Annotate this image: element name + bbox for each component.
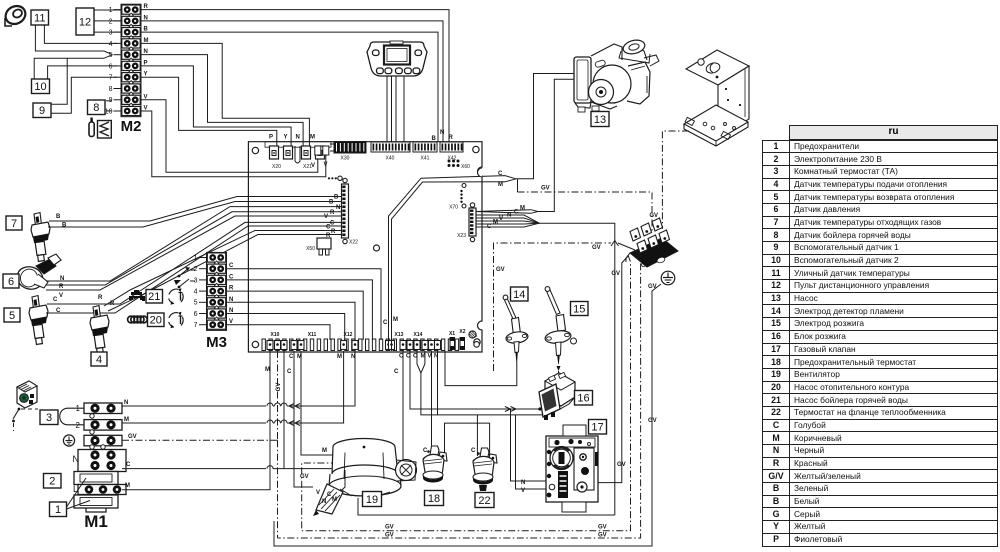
wire M2-1 R to X42 [141,10,449,142]
box 18 [425,491,444,506]
svg-text:21: 21 [148,291,160,303]
wire earth to bottom bus [274,284,661,546]
svg-text:X2: X2 [459,329,465,335]
svg-text:2: 2 [49,476,55,488]
svg-text:N: N [73,454,80,464]
wire pump feed 1 [516,74,575,179]
box 16 [575,391,593,406]
svg-text:4: 4 [109,41,113,48]
wire GV electrodes enclosure [494,243,612,371]
svg-text:R: R [330,210,335,216]
wire GV bracket to earth block [662,131,689,229]
svg-text:1: 1 [55,504,61,516]
wire sensor6 N to X22 [46,207,342,281]
svg-text:V: V [521,488,525,494]
svg-text:R: R [331,229,336,235]
svg-text:N: N [336,205,340,211]
wire M2-6 P to X20 [141,66,291,146]
wire M pump pair [392,179,517,351]
wire sensor4 R2 to X22 [108,235,342,312]
pump rotation symbol upper [169,288,184,304]
svg-text:V: V [316,490,320,496]
sensor 5 return temperature [29,296,48,345]
svg-text:22: 22 [478,495,490,507]
box 10 (aux sensor 2 ref) [32,79,50,94]
wire M2-4 M to X21 [141,43,309,146]
svg-text:M: M [124,417,129,423]
room thermostat connector icon [17,381,37,408]
svg-text:X50: X50 [306,246,315,252]
svg-text:GV: GV [598,525,607,531]
dash box8 to M2-10 [106,110,112,112]
sensor 6 pressure transducer [14,254,61,292]
wire box10 to M2-6 [48,66,117,79]
wire X10 GV dash-dot down [277,351,279,440]
wire M1-L M to X10 [122,351,270,490]
wire box11 to M2-5 arrow upper [35,25,112,55]
svg-text:C: C [399,354,404,360]
wire M2-10 V to PCB [141,111,326,177]
box 9 (aux sensor 1 ref) [33,103,51,118]
sensor 7 flue gas temperature [31,213,50,262]
svg-text:N: N [521,480,525,486]
wire X10 C down [283,351,285,469]
box 7 [6,216,22,230]
svg-text:C: C [53,297,58,303]
svg-text:5: 5 [194,300,198,307]
connector X20 [270,146,293,170]
svg-text:5: 5 [9,310,15,322]
svg-text:C: C [330,221,335,227]
wire box9 branch to M2-5 [51,58,67,104]
wire electrode15 to ignition block [558,371,560,376]
svg-text:2: 2 [76,421,81,430]
svg-text:V: V [59,293,63,299]
svg-text:GV: GV [128,434,137,440]
box 3 [40,410,58,425]
wire M2-2 N to X42 [141,21,443,142]
svg-text:X1: X1 [449,331,455,337]
wire sensor7 B to X22 [49,197,342,222]
box 1 [50,502,67,517]
wire valve right loop [598,256,628,483]
wire M3-5 to X12 [227,302,356,340]
wire M3-6 to X12 [227,314,345,341]
wire sensor6 R to X22 [46,212,342,285]
svg-text:V: V [428,354,432,360]
wire M3-7 to X12 [227,325,331,340]
connector X30 [330,142,366,162]
svg-text:7: 7 [109,75,113,82]
svg-text:GV: GV [496,267,505,273]
wire sensor6 V to X22 [46,216,342,290]
svg-text:M: M [310,135,315,141]
svg-text:X13: X13 [395,332,404,338]
ground screw X2 [459,329,479,347]
wire X13 N [437,351,439,415]
svg-text:X22: X22 [349,240,358,246]
M1 1-2 jumper loop [60,408,84,425]
svg-text:GV: GV [385,525,394,531]
V pins below edge [315,146,321,155]
electrode 15 ignition [544,287,576,371]
svg-text:8: 8 [109,86,113,93]
fan connector wedge [313,484,343,516]
svg-text:B: B [334,195,339,201]
wire M2-9 V to PCB [141,100,318,173]
svg-text:N: N [296,135,300,141]
wire fan feeders [341,470,345,491]
svg-text:10: 10 [105,108,113,115]
svg-text:X70: X70 [449,205,458,211]
M3 row3 switch symbol [174,279,195,288]
svg-text:X60: X60 [461,164,470,170]
svg-text:V: V [324,162,328,168]
connector X70 [449,184,466,211]
svg-text:C: C [471,448,476,454]
M3 row2 switch symbol [178,267,195,277]
wire GV from pump line to earth block [517,179,519,192]
electrode 14 flame detection [503,295,529,361]
wire M1-N C to X13 [122,468,266,470]
wire X13 C2+M merge [417,351,546,415]
wire M3-4 to X12 [227,291,364,340]
wire sensor5 C2 to X22 [46,226,342,313]
svg-text:M: M [265,367,270,373]
connector X22 [342,178,359,245]
svg-text:2: 2 [109,18,113,25]
svg-text:C: C [394,369,399,375]
svg-text:X14: X14 [414,332,423,338]
gas valve [546,425,598,512]
svg-text:19: 19 [366,494,378,506]
svg-text:X30: X30 [341,156,350,162]
svg-text:6: 6 [194,311,198,318]
box 22 [475,493,494,508]
svg-text:M: M [520,206,525,212]
svg-text:15: 15 [573,303,585,315]
connector row X10-X14 pins [262,339,459,351]
svg-text:M: M [125,483,130,489]
svg-text:1: 1 [194,255,198,262]
wire X23 M to pump [476,210,538,212]
svg-text:GV: GV [617,462,626,468]
wire valve V feed [516,415,559,489]
svg-text:C: C [423,448,428,454]
svg-text:C: C [126,462,131,468]
connector X40 [371,142,410,162]
wire box10/box9 to M2-5 arrow lower [34,55,112,79]
svg-text:P: P [269,135,273,141]
svg-text:GV: GV [648,284,657,290]
svg-text:C: C [514,210,519,216]
svg-text:6: 6 [8,276,14,288]
svg-text:V: V [324,214,328,220]
svg-text:N: N [322,499,326,505]
box 8 (DHW sensor ref) [88,100,106,115]
wire M2-7 Y to X20 [141,77,277,146]
svg-text:X40: X40 [386,156,395,162]
svg-text:GV: GV [648,418,657,424]
wire GV block to fan bus [302,255,631,531]
svg-text:R: R [110,301,115,307]
box 12 (remote control ref) [76,8,94,35]
svg-text:M2: M2 [121,118,142,135]
svg-text:X10: X10 [271,332,280,338]
svg-text:M: M [297,354,302,360]
svg-text:GV: GV [300,474,309,480]
thermostat 22 flange [473,448,497,491]
svg-text:C: C [56,308,61,314]
svg-text:GV: GV [611,271,620,277]
svg-text:M: M [337,354,342,360]
wire X13 C1 [410,351,548,409]
svg-text:C: C [498,171,503,177]
svg-text:N: N [507,213,511,219]
pump [574,38,659,112]
box 14 [511,287,529,301]
box 15 [571,302,589,316]
svg-text:18: 18 [428,493,440,505]
block terminal stubs [626,253,630,262]
wire X13 V to thermostat18 [431,351,433,456]
box 21 [146,290,163,304]
svg-text:GV: GV [598,533,607,539]
svg-text:C: C [487,224,492,230]
pump rotation symbol lower [169,312,184,328]
wire X23 bundle to right [476,215,539,223]
svg-text:10: 10 [34,81,46,93]
svg-text:R: R [59,284,64,290]
earth terminal block [630,218,678,267]
connector X21 [295,146,325,170]
earth symbol at M1 [63,435,74,446]
svg-text:B: B [56,214,61,220]
svg-text:B: B [62,223,67,229]
svg-text:17: 17 [591,422,603,434]
svg-text:3: 3 [109,30,113,37]
svg-text:M3: M3 [206,334,227,351]
relay X50 [306,238,331,255]
svg-text:13: 13 [594,114,606,126]
svg-text:Y: Y [284,135,288,141]
wire sensor4 R to X22 [104,231,342,307]
wire box9 to M2-7 [51,77,117,113]
connector X6 [328,176,342,180]
svg-text:M: M [393,317,398,323]
M2 wire colour labels [144,4,149,111]
box 11 (outdoor sensor ref) [31,10,49,25]
wire X11 M to fan [301,351,333,455]
faucet icon [129,290,145,301]
wire M1-earth GV dash-dot [122,439,278,441]
PCB mounting hole top-left [252,147,258,153]
svg-text:L: L [73,484,78,494]
fan [329,439,417,497]
connector X60 [448,160,471,171]
box 2 [44,474,62,489]
dash box8 to M2-9 [106,100,112,102]
connector X23 [457,203,476,242]
box 4 [91,352,107,366]
outdoor temperature sensor icon [2,3,28,28]
terminal strip M2 [105,4,142,135]
svg-text:M: M [332,497,337,503]
svg-text:C: C [406,354,411,360]
wire sensor7 B2 to X22 [48,202,342,228]
wire C pump pair [389,176,517,351]
svg-text:C: C [287,369,292,375]
svg-text:N: N [351,354,355,360]
svg-text:3: 3 [46,412,52,424]
svg-text:GV: GV [276,383,282,392]
wire GV block to M1 bus [278,250,641,538]
connector X41 [413,142,437,162]
svg-text:V: V [311,163,315,169]
wire electrode14 [445,351,517,386]
svg-text:16: 16 [577,393,589,405]
PCB inner hole [374,245,380,251]
box 17 [589,420,607,435]
DHW tank icon [89,118,111,139]
mounting bracket [684,50,749,146]
svg-text:11: 11 [34,12,45,24]
box 13 [591,112,609,127]
wire M3-2 to X12 [227,269,382,340]
wire solid bottom bus fan to valve [358,498,615,515]
ignition block [539,372,575,420]
svg-text:M1: M1 [84,512,108,531]
room thermostat switch [12,408,38,431]
svg-text:M: M [493,220,498,226]
svg-text:GV: GV [641,263,650,269]
wire box11 to M2-4 [44,25,117,43]
svg-text:M: M [421,354,426,360]
box 19 [363,492,382,507]
wire X11 C to fan [294,351,313,487]
box 6 [3,274,19,288]
svg-text:C: C [383,320,388,326]
coil icon [128,316,148,323]
svg-text:R: R [326,233,331,239]
wire box12 to M2-2 [94,20,121,22]
svg-text:C: C [289,354,294,360]
svg-text:M: M [498,182,503,188]
svg-text:X20: X20 [272,164,281,170]
svg-text:4: 4 [194,289,198,296]
wire M1-2 M to X12 [122,422,266,424]
wire M2-3 B to X42 [141,32,438,141]
wire box12 to M2-1 [94,9,121,11]
thermostat 18 safety [423,446,447,483]
svg-text:X11: X11 [308,332,317,338]
svg-text:X41: X41 [421,156,430,162]
box1 pointer lines [67,478,87,507]
wire valve N feed [511,409,559,481]
control panel display unit [367,41,427,76]
PCB board outline [248,142,482,352]
svg-text:7: 7 [194,322,198,329]
svg-text:GV: GV [649,213,658,219]
svg-text:C: C [413,354,418,360]
terminal strip M3 [194,252,227,351]
svg-text:N: N [124,400,128,406]
display wires to X40 [386,77,388,142]
svg-text:4: 4 [96,354,102,366]
wire sensor5 C to X22 [47,222,342,304]
wire box12 to M2-3 [94,31,121,33]
svg-text:R: R [98,295,103,301]
svg-text:N: N [440,130,444,136]
wire pump feed 2 [538,79,575,211]
fuse X1 [449,331,465,350]
PCB mounting hole bottom-left [252,341,258,347]
earth symbol [661,271,675,285]
PCB mounting hole top-right [473,146,479,152]
terminal strip M1 [74,403,126,531]
svg-text:R: R [449,135,454,141]
svg-text:GV: GV [592,245,601,251]
svg-text:7: 7 [11,218,17,230]
wire M3-3 to X12 [227,280,373,340]
sensor 4 flow temperature [90,306,109,355]
svg-text:9: 9 [39,105,45,117]
wire thermostat18 to 22 [445,423,490,456]
svg-text:6: 6 [109,63,113,70]
svg-text:GV: GV [385,533,394,539]
PCB mounting hole bottom-right [474,339,480,345]
wire M1-1 N to X12 [122,405,266,407]
PCB edge jump arc [478,168,483,177]
svg-text:N: N [60,276,64,282]
box 5 [4,308,20,322]
junction chevron [611,241,619,247]
svg-text:N: N [434,354,438,360]
connector X42 [440,142,463,162]
svg-text:M: M [322,448,327,454]
svg-text:8: 8 [93,102,99,114]
svg-text:GV: GV [541,186,550,192]
box 20 [148,313,165,327]
wire thermostat22 left [476,415,478,456]
svg-text:14: 14 [513,289,525,301]
svg-text:V: V [499,216,503,222]
svg-text:20: 20 [150,315,162,327]
svg-text:B: B [329,200,334,206]
svg-text:X23: X23 [457,233,466,239]
wire M2-5 N to X21 [141,55,303,146]
svg-text:12: 12 [79,16,91,28]
